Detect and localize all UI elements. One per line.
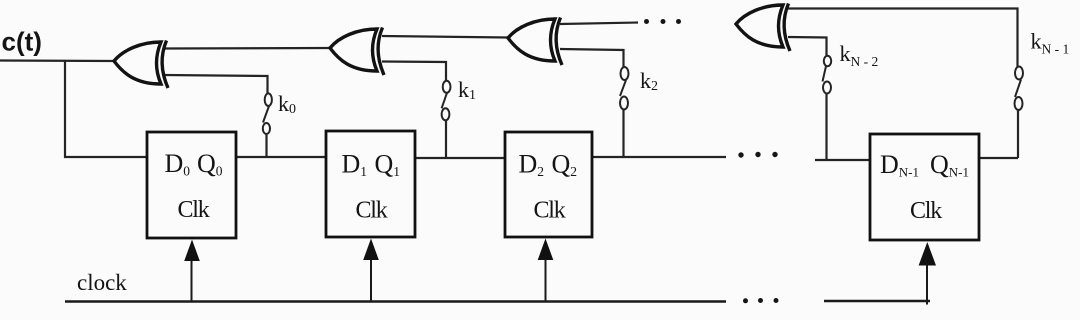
svg-text:D2: D2 [519,150,545,180]
svg-text:Clk: Clk [534,198,566,224]
svg-text:c(t): c(t) [2,27,42,57]
svg-text:k2: k2 [640,68,658,94]
svg-text:DN-1: DN-1 [880,150,919,180]
svg-text:k1: k1 [458,77,476,103]
svg-text:D1: D1 [342,150,368,180]
svg-text:kN - 1: kN - 1 [1031,29,1070,57]
svg-text:kN - 2: kN - 2 [840,41,879,69]
svg-text:Q2: Q2 [552,150,578,180]
svg-text:Clk: Clk [356,198,388,224]
svg-text:clock: clock [77,270,127,295]
svg-text:Q0: Q0 [197,149,223,179]
svg-text:k0: k0 [278,91,296,117]
svg-text:D0: D0 [165,149,191,179]
svg-text:Clk: Clk [910,198,942,224]
svg-text:Clk: Clk [178,197,210,223]
svg-text:QN-1: QN-1 [930,150,969,180]
svg-text:Q1: Q1 [375,150,401,180]
